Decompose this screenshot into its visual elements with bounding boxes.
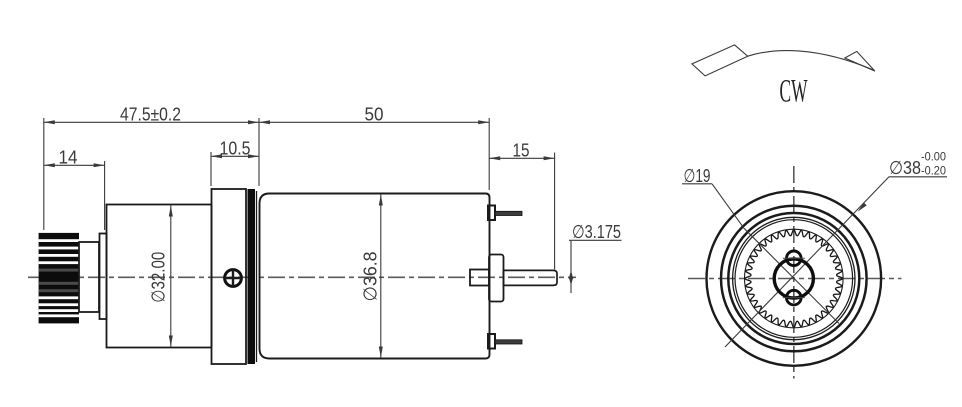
motor end-bell seam line [256, 191, 258, 362]
lower terminal block [488, 334, 495, 349]
svg-text:∅38: ∅38 [889, 157, 921, 178]
upper terminal block [488, 206, 495, 221]
front view horizontal centerline [688, 278, 902, 280]
front view vertical centerline [793, 166, 795, 379]
hub circle [774, 259, 813, 298]
dimension Ø32.00 [148, 206, 173, 347]
upper hub hole [787, 251, 802, 266]
svg-text:∅32.00: ∅32.00 [148, 252, 169, 303]
gearbox body [107, 205, 212, 348]
housing inner circle [728, 213, 859, 344]
output shaft cylinder [79, 242, 99, 312]
housing step circle [721, 206, 867, 352]
rear bearing box [470, 270, 489, 286]
extension line x=489 above motor face [488, 118, 490, 190]
bearing plate circle a [733, 217, 855, 339]
svg-text:∅19: ∅19 [684, 165, 711, 186]
lower hole tick [783, 297, 805, 299]
washer at gearbox face [100, 234, 107, 320]
svg-text:∅36.8: ∅36.8 [360, 252, 381, 302]
internal gear ring [745, 230, 843, 328]
svg-text:CW: CW [780, 74, 808, 110]
flange screw head [225, 270, 242, 287]
svg-text:47.5±0.2: 47.5±0.2 [120, 104, 181, 125]
svg-text:50: 50 [365, 104, 384, 125]
shaft boss [489, 255, 504, 302]
label Ø19 [682, 165, 712, 186]
dimension Ø3.175 leader [569, 221, 622, 293]
CW arrowhead triangle [845, 51, 875, 71]
dimension 47.5±0.2 [44, 104, 259, 125]
upper hole tick [783, 257, 805, 259]
diagonal leader Ø19 through center [712, 184, 839, 324]
gear tip circle Ø19 [745, 229, 844, 328]
mounting flange [212, 189, 247, 364]
CW arrow arc [748, 51, 875, 71]
svg-text:10.5: 10.5 [220, 138, 251, 159]
extension line x=104.6 (gearbox face) [104, 161, 106, 230]
dimension 50 [259, 104, 489, 125]
svg-text:-0.00: -0.00 [921, 150, 946, 164]
diagonal leader Ø38 through center [725, 177, 889, 347]
lower hub hole [787, 290, 802, 305]
label Ø38 with tolerance [889, 150, 947, 179]
dimension 15 [489, 140, 554, 161]
dimension Ø36.8 [360, 195, 383, 358]
lower terminal pin [495, 340, 522, 344]
svg-text:-0.20: -0.20 [921, 164, 946, 178]
outer housing circle Ø38 [707, 191, 882, 366]
knurled output gear [39, 233, 79, 324]
svg-text:15: 15 [513, 140, 530, 161]
bearing plate circle b [735, 220, 853, 338]
CW arrow tail parallelogram [692, 45, 748, 76]
extension line shaft end [554, 153, 556, 270]
motor body [260, 194, 490, 359]
centerline of side view [28, 276, 576, 278]
extension line x=211 (flange left) [210, 152, 212, 186]
extension line x=259 (motor front) [258, 118, 260, 186]
dimension 14 [44, 147, 105, 168]
svg-text:14: 14 [59, 147, 78, 168]
svg-text:∅3.175: ∅3.175 [572, 221, 621, 242]
upper terminal pin [495, 211, 522, 215]
CW text [780, 74, 808, 110]
dimension 10.5 [211, 138, 259, 159]
black retainer band [248, 189, 256, 364]
extension line left (gear tip) [43, 118, 45, 230]
rear shaft [504, 270, 558, 285]
